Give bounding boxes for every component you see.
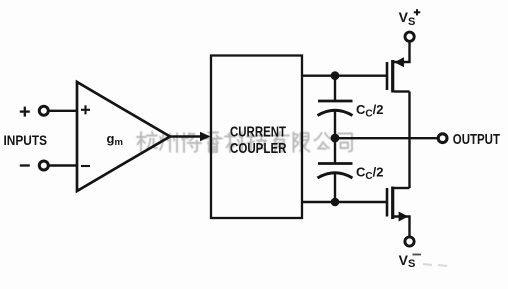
Q1 source arrow <box>394 57 404 67</box>
wire mid node to capacitor C2 <box>334 138 336 164</box>
junction dot mid node <box>331 134 340 143</box>
node - input terminal circle <box>39 161 48 170</box>
VS+ supply terminal circle <box>405 32 414 41</box>
op-amp U1 gm transconductance amp triangle <box>77 82 170 191</box>
svg-text:INPUTS: INPUTS <box>4 132 48 148</box>
Q2 drain lead wire <box>394 187 410 189</box>
wire C1 to mid node <box>334 111 336 138</box>
wire top rail coupler to Q1 gate <box>302 74 387 76</box>
minus label (inverting input) <box>20 164 30 166</box>
plus label (noninverting input) <box>20 107 30 117</box>
wire - input to op-amp <box>49 164 77 166</box>
current coupler block U2 <box>211 56 302 219</box>
wire op-amp output to coupler with arrowhead <box>170 135 202 138</box>
junction dot top rail node <box>331 71 340 80</box>
Q1 source lead wire <box>394 43 410 63</box>
capacitor C1 curved plate <box>318 110 353 115</box>
transistor Q2 NMOS gate bar <box>386 188 389 217</box>
transistor Q1 channel bar <box>391 60 394 93</box>
wire output vertical Q1 drain to Q2 drain <box>408 92 410 189</box>
minus sign inside op-amp <box>81 165 90 167</box>
wire bottom rail coupler to Q2 gate <box>302 201 387 203</box>
output terminal circle <box>438 134 447 143</box>
transistor Q2 channel bar <box>391 187 394 220</box>
wire top dot to capacitor C1 <box>334 76 336 101</box>
wire + input to op-amp <box>49 110 77 112</box>
capacitor C2 top plate <box>318 162 353 165</box>
Q2 source arrow <box>399 212 409 222</box>
svg-text:OUTPUT: OUTPUT <box>453 132 500 148</box>
svg-text:CURRENT: CURRENT <box>230 124 286 141</box>
svg-text:COUPLER: COUPLER <box>230 140 287 157</box>
VS- supply terminal circle <box>405 237 414 246</box>
wire C2 to bottom rail <box>334 173 336 202</box>
transistor Q1 PMOS gate bar <box>386 62 389 90</box>
node + input terminal circle <box>39 106 48 115</box>
Q1 drain lead wire <box>394 90 410 92</box>
capacitor C1 top plate <box>318 100 353 103</box>
plus sign inside op-amp <box>81 105 90 114</box>
capacitor C2 curved plate <box>318 173 353 178</box>
wire mid node to output terminal <box>335 137 437 139</box>
faint watermark fragment bottom right <box>423 264 447 266</box>
junction dot bottom rail node <box>331 198 340 207</box>
Q2 source lead wire <box>394 217 410 237</box>
